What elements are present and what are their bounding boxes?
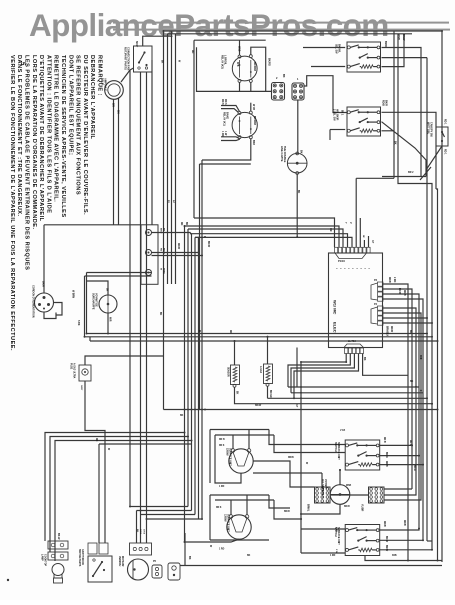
svg-text:RD/W: RD/W [177, 243, 179, 250]
svg-text:RELAY (K1): RELAY (K1) [223, 112, 226, 126]
wire K2 bottom-right down [202, 139, 251, 160]
svg-text:RELAY (K2): RELAY (K2) [221, 55, 224, 69]
svg-text:TECHNICIEN DE SERVICE APRES-VE: TECHNICIEN DE SERVICE APRES-VENTE, VEUIL… [60, 55, 66, 218]
wire left board drop [300, 362, 302, 553]
svg-text:BK: BK [180, 415, 184, 417]
svg-text:GY/2: GY/2 [143, 529, 145, 535]
connector P3 board right [378, 282, 384, 286]
switch door switch block [88, 543, 97, 554]
wire plug to neutral [54, 303, 63, 316]
wire mid triple bus [87, 333, 428, 335]
svg-text:RD: RD [180, 222, 182, 226]
svg-text:BK/W: BK/W [398, 288, 400, 295]
svg-text:P1/16: P1/16 [338, 259, 345, 263]
svg-text:BK: BK [282, 74, 285, 78]
wire right corner y183 [398, 34, 432, 550]
wire S2 exits right [382, 48, 422, 177]
svg-text:RD 6: RD 6 [224, 99, 227, 105]
wire terminal2 pair right [152, 237, 199, 252]
svg-text:DANS LE FONCTIONNEMENT ET :TRE: DANS LE FONCTIONNEMENT ET :TRE DANGEREUX… [16, 55, 22, 217]
wire E2 right exits [269, 495, 290, 508]
wire IL2 bottom [301, 504, 340, 514]
wire long bus y409 [164, 409, 438, 411]
wire P4 exits [383, 308, 416, 387]
wire oven light down [296, 174, 298, 237]
svg-text:BK: BK [117, 110, 121, 114]
junction dots [163, 30, 165, 32]
svg-text:BK: BK [410, 381, 414, 383]
resistor R1 oven sensor [231, 365, 240, 385]
svg-text:W'B: W'B [236, 62, 238, 67]
svg-text:ATTENTION : IDENTIFIER TOUS LE: ATTENTION : IDENTIFIER TOUS LES FILS D L… [45, 55, 51, 214]
wire E1 right exits [269, 430, 345, 445]
svg-text:W1/ MC: W1/ MC [333, 300, 338, 315]
svg-text:BK/R: BK/R [284, 511, 290, 513]
relay K1 broil relay [232, 56, 257, 81]
svg-text:BK: BK [300, 150, 303, 154]
svg-text:RD 1: RD 1 [444, 119, 447, 125]
svg-text:1 RD: 1 RD [219, 486, 225, 488]
wire S2 left feeds [303, 47, 345, 49]
wire bus y233 pair [191, 233, 348, 248]
svg-text:RD 8: RD 8 [219, 445, 225, 447]
wire E2 terminals [230, 500, 232, 515]
wire bus y226 pair [185, 226, 340, 247]
svg-text:BK: BK [185, 222, 187, 226]
connector TB2 [272, 83, 285, 101]
switch S1 convection fan [134, 46, 153, 72]
wire plug bottom loop [44, 312, 56, 319]
wire E1 terminals up [232, 435, 234, 449]
switch S6 surface unit switch lower [345, 525, 380, 556]
svg-text:2200W: 2200W [226, 448, 229, 456]
svg-text:DEBRANCHER L'APPAREIL: DEBRANCHER L'APPAREIL [89, 55, 95, 140]
svg-text:VERROU: VERROU [118, 556, 121, 567]
wire S3 left feed lower [330, 129, 345, 131]
wire X crossing [420, 167, 431, 180]
svg-text:OR: OR [329, 228, 331, 232]
speck artifact [7, 579, 9, 581]
switch S2 oven selector top [347, 42, 381, 72]
svg-text:YL/BR: YL/BR [361, 504, 364, 511]
svg-text:A GAZ: A GAZ [259, 366, 262, 374]
svg-text:GY: GY [371, 240, 373, 244]
svg-text:W6B: W6B [346, 485, 351, 487]
svg-text:GN/Y: GN/Y [80, 385, 82, 391]
svg-text:BK/R: BK/R [413, 465, 415, 471]
svg-text:2 SEL SW: 2 SEL SW [333, 109, 336, 121]
wire P2 pin exits [301, 354, 346, 363]
svg-text:BK: BK [409, 330, 411, 334]
wire G2 right exits [384, 488, 412, 490]
wire plug riser [43, 225, 45, 293]
svg-text:R4B: R4B [392, 554, 397, 557]
svg-text:REMETTRE LE DIAGRAMME AVEC L'A: REMETTRE LE DIAGRAMME AVEC L'APPAREIL. [53, 55, 59, 202]
svg-text:RD/B: RD/B [403, 520, 405, 526]
svg-text:LINE CAVITE: LINE CAVITE [280, 146, 283, 162]
svg-text:CORDON D'ALIMENTATION: CORDON D'ALIMENTATION [32, 285, 35, 318]
wire terminal3 pair right [87, 272, 152, 274]
svg-text:ELEC: ELEC [333, 322, 338, 333]
lamp E2 oven light [287, 153, 307, 173]
wire right main vertical [441, 31, 443, 562]
svg-text:BK: BK [188, 556, 191, 560]
wire P3 exits [383, 284, 408, 561]
svg-text:BK: BK [297, 190, 299, 194]
lamp DL1 oven lamp [105, 81, 124, 100]
svg-text:RD 8: RD 8 [221, 99, 224, 105]
wire bundle verticals down [184, 226, 186, 542]
wire S1 second lead [151, 60, 153, 225]
svg-text:BK: BK [136, 529, 138, 533]
svg-text:RD: RD [191, 50, 193, 54]
svg-text:RD 1: RD 1 [444, 149, 447, 155]
wire E1 bottom [215, 470, 241, 483]
svg-text:1200W: 1200W [224, 514, 227, 522]
connector bottom lamp conn1 [48, 541, 68, 549]
wire bottom-left feeders [45, 433, 185, 542]
svg-text:RD B: RD B [219, 439, 225, 441]
wire left long verticals [163, 31, 165, 410]
svg-text:BK W: BK W [57, 533, 60, 540]
svg-text:BK: BK [161, 60, 163, 64]
svg-text:1 RD: 1 RD [335, 527, 337, 532]
svg-text:GY: GY [295, 404, 297, 408]
svg-text:BK/R: BK/R [344, 506, 350, 508]
indicator light IL1 surface [99, 295, 117, 313]
connector G1 terminal grid [315, 487, 331, 503]
svg-text:BK8: BK8 [252, 140, 255, 145]
wire S6 exits right [380, 529, 419, 531]
connector P1 board top [335, 247, 338, 253]
relay K2 bake relay [232, 112, 257, 137]
svg-text:BK/GN: BK/GN [269, 390, 271, 398]
wire top loop to K1 [194, 39, 266, 41]
plug P1 power cord [35, 293, 54, 312]
wire S3 exits right [382, 112, 437, 189]
svg-text:BK 1: BK 1 [341, 110, 343, 116]
svg-text:GY/1: GY/1 [139, 529, 141, 535]
svg-text:BR/W: BR/W [385, 545, 387, 552]
svg-text:BK: BK [159, 312, 161, 316]
wire K2 bottom feeds left [221, 137, 240, 139]
switch S3 oven selector bottom [347, 107, 381, 136]
svg-text:BK/R: BK/R [42, 281, 45, 287]
svg-text:RD/W: RD/W [390, 326, 392, 333]
wire S4 bottom diagonal [426, 146, 442, 177]
element H2 surface unit right front [210, 494, 269, 496]
wire sensor horizontals [288, 386, 419, 388]
svg-text:RD: RD [160, 248, 162, 252]
svg-text:FOUR: FOUR [101, 78, 105, 85]
wire S5 exits right [380, 444, 412, 446]
svg-text:REMARQUE :: REMARQUE : [97, 55, 103, 96]
wire terminal1 pair right [152, 232, 191, 234]
svg-text:SWITCH PARTS: SWITCH PARTS [78, 549, 81, 567]
connector P4 board right lower [378, 306, 384, 310]
svg-text:DU SECTEUR AVANT D'ENLEVER LE: DU SECTEUR AVANT D'ENLEVER LE COUVRE-FIL… [82, 55, 88, 215]
svg-text:VERIFIER LE BON FONCTIONNEMENT: VERIFIER LE BON FONCTIONNEMENT DE L'APPA… [9, 55, 15, 351]
svg-text:SWITCH: SWITCH [334, 442, 337, 452]
svg-text:S BK: S BK [77, 320, 79, 326]
svg-text:BK: BK [363, 357, 366, 361]
svg-text:W/R: W/R [109, 317, 111, 322]
wire bottom right bus [365, 556, 442, 561]
wire lower feeds to motor [130, 506, 188, 508]
svg-text:2 RD: 2 RD [393, 277, 395, 283]
svg-text:1 RD: 1 RD [221, 131, 224, 137]
svg-text:1 RD: 1 RD [330, 555, 336, 557]
svg-text:RD: RD [95, 438, 97, 442]
svg-text:RD/B: RD/B [385, 461, 387, 467]
svg-text:W BRN: W BRN [72, 290, 75, 298]
svg-text:SEL SW: SEL SW [335, 44, 338, 54]
svg-text:RD/B: RD/B [388, 277, 390, 283]
lamp IL2 hot surface indicator [330, 485, 350, 505]
wire top bus L1 [164, 30, 443, 32]
svg-text:RD/B: RD/B [382, 100, 385, 106]
wire fuse component [79, 365, 91, 381]
element H1 surface unit right rear [210, 429, 269, 431]
svg-text:1 RD: 1 RD [219, 549, 225, 551]
svg-text:W 1B: W 1B [252, 104, 255, 110]
connector bottom lamp conn2 [48, 552, 68, 560]
wire G1 feeds [253, 461, 315, 487]
svg-text:DONT L'APPAREIL EST EQUIPE;: DONT L'APPAREIL EST EQUIPE; [67, 55, 73, 155]
svg-text:ROT./PART PARTS: ROT./PART PARTS [124, 47, 128, 70]
svg-text:W/B: W/B [419, 355, 421, 360]
svg-text:BK: BK [163, 228, 165, 232]
wire indicator bottom [107, 313, 109, 334]
svg-text:LAMP: LAMP [41, 554, 44, 561]
wire S6 left feeds [301, 528, 345, 530]
svg-text:AppliancePartsPros.com: AppliancePartsPros.com [29, 7, 389, 43]
wire left pair down to bus [86, 273, 88, 334]
svg-text:FUSE: FUSE [70, 363, 72, 370]
terminal L2 [146, 250, 152, 256]
svg-text:RD 8: RD 8 [409, 440, 411, 446]
svg-text:BR: BR [112, 103, 116, 107]
svg-text:BR 2: BR 2 [408, 171, 414, 174]
wire strip top feed [44, 224, 141, 226]
svg-text:BK/R: BK/R [385, 452, 387, 458]
wire board pin up line [356, 177, 394, 179]
connector small right [168, 563, 180, 580]
svg-text:BK/RD: BK/RD [268, 58, 271, 66]
lamp cooktop lamp [52, 564, 64, 576]
svg-text:RD/B: RD/B [383, 521, 385, 527]
wire TB1 bottom to oven light [297, 100, 299, 153]
svg-text:BRN/L: BRN/L [307, 504, 310, 512]
svg-text:RD B: RD B [383, 437, 385, 443]
wire lamp leads down [113, 99, 115, 225]
svg-text:BK: BK [106, 288, 108, 292]
connector P5 [152, 565, 162, 578]
svg-text:V 1B: V 1B [340, 430, 345, 432]
wire board pins up [355, 178, 357, 247]
wire bus y218 [194, 218, 335, 247]
wire right vertical 427 [426, 58, 428, 541]
wire IL2 top [339, 470, 341, 485]
connector G2 terminal grid [369, 487, 385, 503]
svg-text:RD: RD [229, 330, 231, 334]
svg-text:BK: BK [247, 555, 251, 557]
wire S1 to lamp [121, 68, 134, 82]
svg-text:BR/R: BR/R [384, 41, 387, 47]
wire K2 top-right up [250, 103, 252, 111]
svg-text:RD 8: RD 8 [216, 507, 222, 509]
svg-text:BK/W: BK/W [255, 405, 262, 407]
svg-text:BK/W: BK/W [207, 241, 209, 248]
svg-text:D'ETIQUETTES AVANT DE DEBRANCH: D'ETIQUETTES AVANT DE DEBRANCHER L'APPAR… [38, 55, 44, 222]
wire K1 top-left up [239, 40, 241, 55]
wire K1 bottom bus [197, 47, 240, 91]
wire bottom neutral run [180, 565, 442, 567]
wire right horiz y176 [382, 176, 426, 178]
svg-text:LL 70A: LL 70A [348, 340, 356, 343]
terminal L3 [146, 270, 152, 276]
svg-text:BK/W1B: BK/W1B [253, 116, 255, 125]
svg-text:W1B: W1B [238, 46, 241, 52]
svg-text:BK: BK [236, 391, 238, 395]
svg-text:RD/B: RD/B [403, 290, 405, 296]
wire R2 bottom [267, 386, 269, 398]
wire E2 bottom [185, 539, 240, 542]
svg-text:ALL SIMMER/LO: ALL SIMMER/LO [321, 479, 324, 498]
board A1 electronic control [329, 253, 383, 348]
watermark strike lines [113, 22, 449, 24]
terminal L1 [146, 230, 152, 236]
svg-text:MOT: MOT [135, 41, 139, 48]
wire indicator top [87, 281, 109, 295]
svg-text:W/BK: W/BK [163, 268, 165, 274]
wire S1 top to top bus [143, 36, 172, 46]
terminal block TB power [141, 225, 158, 284]
wire right corner y189 [436, 189, 438, 561]
svg-text:BRN/BLK: BRN/BLK [386, 326, 388, 337]
wire S1 leads down long [129, 70, 131, 507]
connector P2 board bottom [344, 344, 364, 348]
svg-text:LES PROBLEMES DE CABLAGE PEUVE: LES PROBLEMES DE CABLAGE PEUVENT ENTRAIN… [24, 55, 30, 270]
wire R1 bottom [235, 387, 433, 403]
svg-text:BK/W: BK/W [402, 34, 405, 41]
svg-text:1 W: 1 W [224, 131, 227, 136]
svg-text:BK/W: BK/W [385, 536, 387, 543]
svg-text:RD/W: RD/W [163, 248, 165, 255]
wire TB1 top link [304, 76, 347, 113]
svg-text:SE REFERER UNIQUEMENT AUX FONC: SE REFERER UNIQUEMENT AUX FONCTIONS [75, 55, 81, 195]
svg-text:SENSOR: SENSOR [227, 367, 229, 377]
switch S5 surface unit switch upper [345, 440, 380, 470]
svg-text:SURCHAUFFE: SURCHAUFFE [92, 293, 95, 310]
wire K2 feeds left [221, 106, 240, 112]
svg-text:CAVITY/DOOR: CAVITY/DOOR [81, 549, 84, 565]
wire top bus L2 [168, 33, 413, 35]
switch S4 canopy [436, 127, 448, 146]
svg-text:LORS DE LA REPARATION D'ORGANE: LORS DE LA REPARATION D'ORGANES DE COMMA… [31, 55, 37, 230]
connector TB1 [292, 83, 304, 100]
svg-text:BK/W1B: BK/W1B [253, 62, 255, 71]
svg-text:RD/B: RD/B [288, 457, 294, 459]
svg-text:A GAZ ULTRA: A GAZ ULTRA [73, 363, 76, 379]
wire K1 top-right to TB link [251, 47, 272, 91]
resistor R2 oven sensor 2 [264, 364, 273, 384]
